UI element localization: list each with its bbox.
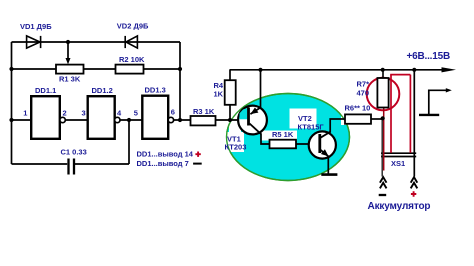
svg-text:2: 2	[63, 108, 67, 117]
svg-text:КТ203: КТ203	[225, 142, 247, 151]
svg-text:R1 3K: R1 3K	[59, 75, 81, 84]
svg-text:DD1...вывод 7: DD1...вывод 7	[137, 159, 189, 168]
svg-text:R5 1K: R5 1K	[272, 130, 294, 139]
svg-text:R6** 10: R6** 10	[345, 103, 371, 112]
svg-text:1K: 1K	[214, 89, 224, 98]
svg-text:C1 0.33: C1 0.33	[61, 147, 87, 156]
svg-text:+6В...15В: +6В...15В	[407, 51, 451, 62]
svg-text:R3 1K: R3 1K	[193, 107, 215, 116]
svg-text:DD1.3: DD1.3	[145, 86, 166, 95]
svg-text:DD1.2: DD1.2	[92, 86, 113, 95]
svg-text:КТ815Г: КТ815Г	[298, 123, 325, 132]
svg-text:DD1...вывод 14: DD1...вывод 14	[137, 149, 194, 158]
svg-text:470: 470	[357, 89, 370, 98]
svg-text:6: 6	[171, 108, 175, 117]
svg-text:VD2 Д9Б: VD2 Д9Б	[117, 22, 149, 31]
svg-text:R2 10K: R2 10K	[119, 55, 145, 64]
svg-text:5: 5	[134, 108, 138, 117]
svg-text:DD1.1: DD1.1	[35, 86, 56, 95]
svg-text:R7*: R7*	[357, 80, 370, 89]
svg-text:1: 1	[23, 108, 27, 117]
svg-text:VD1 Д9Б: VD1 Д9Б	[20, 22, 52, 31]
svg-text:Аккумулятор: Аккумулятор	[368, 201, 431, 212]
svg-text:XS1: XS1	[391, 159, 405, 168]
svg-text:3: 3	[82, 108, 86, 117]
